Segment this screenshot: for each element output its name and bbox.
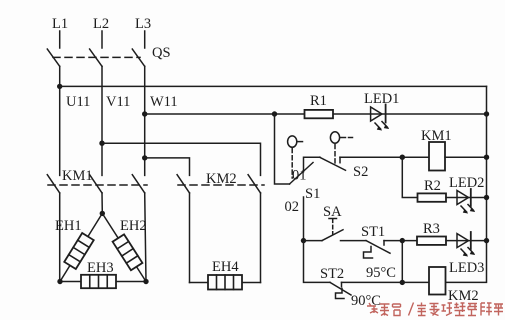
switch S2 blade xyxy=(320,157,346,170)
wire W11 feed to KM2 xyxy=(145,158,190,176)
wire 02 contact vertical xyxy=(303,197,305,241)
switch QS pole 3 blade xyxy=(132,49,144,66)
actuator link S1 xyxy=(291,149,293,179)
contactor KM1 pole 3 blade xyxy=(132,175,144,193)
wire ST2 to KM2 coil xyxy=(342,281,430,283)
contactor KM1 mechanical link xyxy=(48,184,147,186)
wire EH4 right xyxy=(242,282,261,284)
contactor KM2 mechanical link xyxy=(178,184,264,186)
heater EH2 xyxy=(113,234,143,270)
wire 01 drop xyxy=(275,114,290,184)
wire delta left side xyxy=(60,213,102,281)
wire KM1 pole3 down xyxy=(145,193,146,282)
resistor R2 xyxy=(418,193,447,201)
wire row W11 to control xyxy=(145,113,305,115)
thermostat ST2 thermal element xyxy=(336,289,345,299)
svg-text:EH2: EH2 xyxy=(120,218,147,234)
contactor KM1 pole 1 blade xyxy=(47,175,59,193)
wire V11 feed to KM2 xyxy=(102,143,261,175)
LED LED1 xyxy=(371,105,390,131)
node ST1 R3 junction xyxy=(400,238,405,243)
wire phase L2 vertical xyxy=(101,66,103,175)
wire KM2 pole2 down xyxy=(260,193,262,283)
node W11 lower junction xyxy=(142,155,147,160)
node delta bottom-left xyxy=(57,279,62,284)
node control tap xyxy=(272,111,277,116)
wire top rail U11 xyxy=(60,85,487,87)
node delta top xyxy=(100,211,105,216)
node LED2 rail junction xyxy=(484,195,489,200)
node S2 KM1 junction xyxy=(400,155,405,160)
heater EH3 xyxy=(81,275,116,288)
wire L1 stub xyxy=(59,31,61,48)
node KM2 row junction xyxy=(400,280,405,285)
wire EH4 left xyxy=(190,282,209,284)
svg-text:90°C: 90°C xyxy=(351,293,381,309)
svg-text:ST2: ST2 xyxy=(320,266,344,282)
switch SA blade xyxy=(322,230,343,241)
svg-text:SA: SA xyxy=(323,204,342,220)
wire ST1 to R3 xyxy=(384,240,417,242)
svg-text:L3: L3 xyxy=(135,16,151,32)
wire phase L1 vertical xyxy=(59,66,61,175)
svg-text:S2: S2 xyxy=(353,164,368,180)
wire R2 to LED2 xyxy=(446,197,487,199)
actuator link S2 xyxy=(334,145,336,165)
heater EH4 xyxy=(208,275,242,290)
resistor R3 xyxy=(417,237,446,245)
wire SA left xyxy=(304,240,323,242)
wire L3 stub xyxy=(144,31,146,48)
node KM1 rail junction xyxy=(484,155,489,160)
node LED3 rail junction xyxy=(484,238,489,243)
wire L2 stub xyxy=(101,31,103,48)
wire R3 KM2 tie xyxy=(401,241,403,283)
coil KM2 xyxy=(429,267,446,295)
svg-text:L1: L1 xyxy=(52,16,68,32)
svg-text:S1: S1 xyxy=(305,186,320,202)
svg-text:L2: L2 xyxy=(93,16,109,32)
node V11 junction xyxy=(99,141,104,146)
contactor KM2 pole 1 blade xyxy=(177,175,189,193)
coil KM1 xyxy=(429,142,445,171)
svg-text:LED1: LED1 xyxy=(364,91,399,107)
svg-text:KM2: KM2 xyxy=(448,288,479,304)
watermark slash xyxy=(409,303,414,316)
thermostat ST2 blade xyxy=(330,282,351,295)
wire S1 to ST2 xyxy=(304,241,331,283)
heater EH1 xyxy=(64,233,93,269)
node W11 junction xyxy=(142,111,147,116)
switch QS mechanical link xyxy=(53,56,140,58)
node SA junction xyxy=(301,238,306,243)
thermostat ST1 fixed contact xyxy=(383,241,385,245)
svg-text:QS: QS xyxy=(152,45,171,61)
svg-text:LED2: LED2 xyxy=(449,175,484,191)
wire row2 through R1 LED1 xyxy=(333,113,487,115)
svg-text:EH3: EH3 xyxy=(87,260,114,276)
wire SA to ST1 xyxy=(341,240,367,242)
thermostat ST1 thermal element xyxy=(364,247,373,259)
switch S2 fixed contact xyxy=(339,157,341,163)
wire KM2 pole1 down xyxy=(189,193,191,283)
wire KM1 pole1 down xyxy=(59,193,61,282)
contactor KM2 pole 2 blade xyxy=(248,175,260,193)
LED LED2 xyxy=(457,189,475,214)
svg-text:KM1: KM1 xyxy=(421,128,452,144)
node LED1 right junction xyxy=(484,111,489,116)
svg-text:V11: V11 xyxy=(106,94,130,110)
svg-text:R2: R2 xyxy=(424,178,441,194)
thermostat ST1 blade xyxy=(366,241,390,254)
svg-text:LED3: LED3 xyxy=(449,260,484,276)
watermark toutiao laoma xyxy=(367,303,503,316)
LED LED3 xyxy=(457,232,475,257)
node U11 junction xyxy=(57,84,62,89)
wire S2 to node xyxy=(340,156,429,158)
svg-text:EH4: EH4 xyxy=(212,259,239,275)
switch S1 contact 01 fixed xyxy=(304,157,321,172)
wire phase L3 vertical xyxy=(144,66,146,175)
svg-text:KM1: KM1 xyxy=(62,168,93,184)
resistor R1 xyxy=(305,110,334,118)
wire KM1 pole2 down xyxy=(101,193,103,214)
wire right rail xyxy=(446,86,487,282)
switch S1 contact 01 blade xyxy=(290,163,314,185)
svg-text:R1: R1 xyxy=(310,93,327,109)
svg-text:R3: R3 xyxy=(423,221,440,237)
wire KM1 coil to rail xyxy=(445,156,487,158)
actuator circle S2 xyxy=(330,132,339,143)
svg-text:U11: U11 xyxy=(66,94,90,110)
switch QS pole 2 blade xyxy=(90,49,102,66)
svg-text:EH1: EH1 xyxy=(55,218,82,234)
node delta bottom-right xyxy=(143,279,148,284)
switch QS pole 1 blade xyxy=(47,49,59,66)
wire R2 branch xyxy=(402,157,417,197)
wire delta right side xyxy=(102,213,146,281)
svg-text:95°C: 95°C xyxy=(366,265,396,281)
actuator circle S1 xyxy=(288,136,297,147)
svg-text:W11: W11 xyxy=(150,94,178,110)
wire R3 to LED3 xyxy=(446,240,487,242)
contactor KM1 pole 2 blade xyxy=(90,175,102,193)
wire delta bottom side xyxy=(60,281,146,283)
svg-text:02: 02 xyxy=(285,199,300,215)
switch SA actuator xyxy=(329,218,337,220)
svg-text:01: 01 xyxy=(292,168,307,184)
thermostat ST2 fixed contact xyxy=(341,282,343,286)
svg-text:ST1: ST1 xyxy=(361,224,385,240)
